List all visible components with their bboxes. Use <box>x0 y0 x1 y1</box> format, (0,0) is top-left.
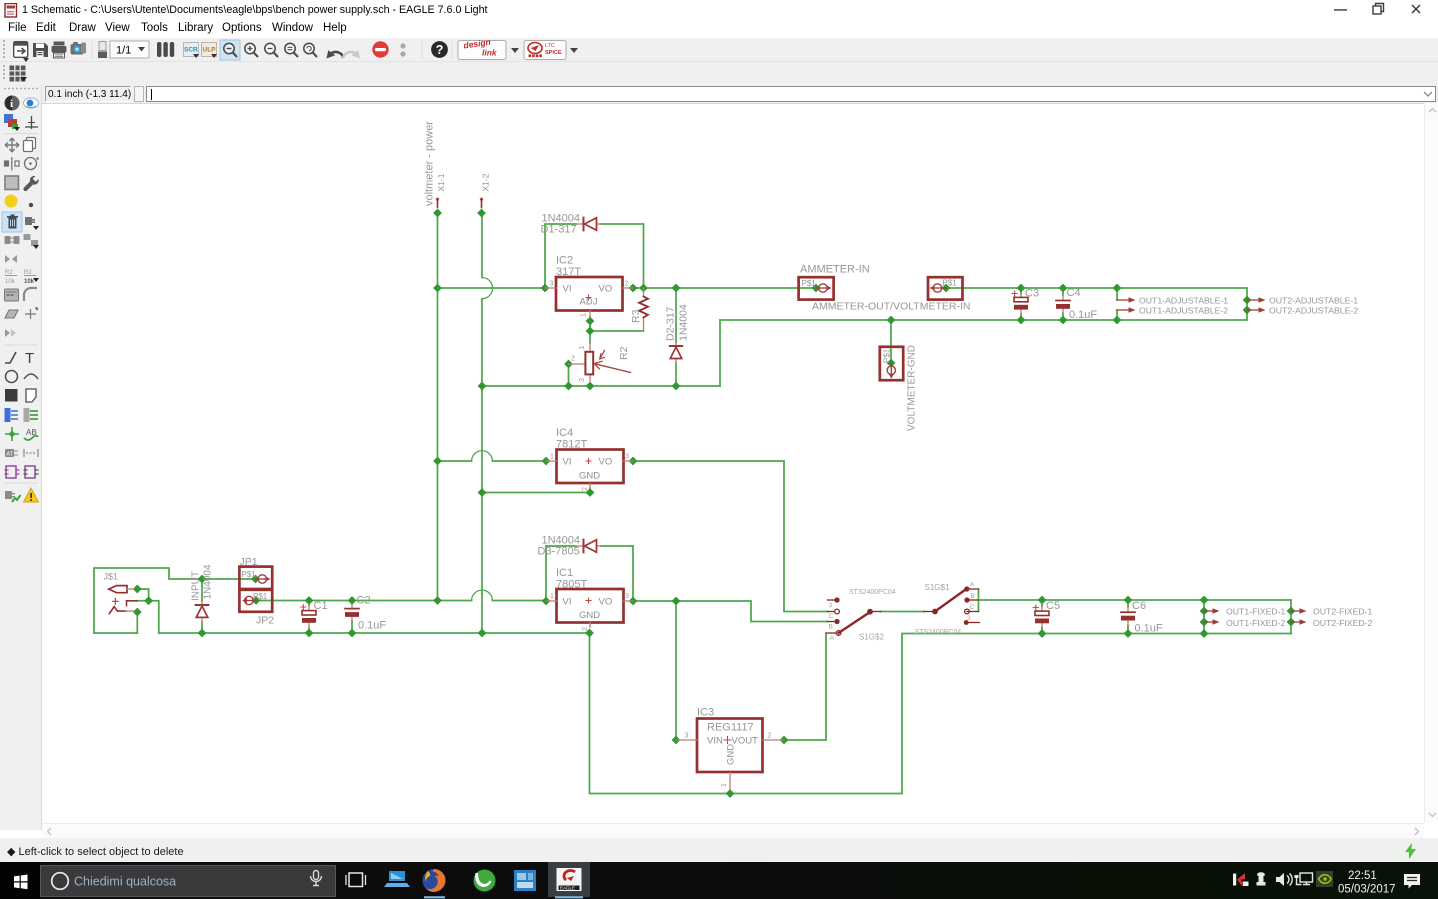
zoom out <box>265 43 278 57</box>
svg-text:REG1117: REG1117 <box>707 722 754 734</box>
junction C4 bottom <box>1059 316 1068 325</box>
label IC4 pin texts <box>563 457 613 482</box>
label IC1 pin numbers <box>550 593 629 631</box>
firefox icon <box>423 869 446 892</box>
label IC3 pin numbers <box>685 733 772 788</box>
design link button <box>458 37 519 60</box>
label switch pin letters S1G$1 <box>967 582 975 623</box>
svg-text:VI: VI <box>563 457 572 468</box>
svg-text:OUT2-ADJUSTABLE-2: OUT2-ADJUSTABLE-2 <box>1269 306 1358 316</box>
svg-text:1: 1 <box>581 313 588 317</box>
svg-text:IC2: IC2 <box>556 255 573 267</box>
pin OUT2-FIXED-1 <box>1291 608 1307 614</box>
wire: OUT2-FIXED vertical <box>1290 600 1292 634</box>
junction C5 top <box>1038 596 1047 605</box>
svg-text:P$1: P$1 <box>943 279 958 288</box>
pin OUT2-ADJUSTABLE-2 <box>1247 307 1266 313</box>
svg-text:VO: VO <box>599 284 613 295</box>
svg-text:GND: GND <box>726 744 737 765</box>
pin X1-1 <box>436 199 440 208</box>
svg-text:OUT1-ADJUSTABLE-2: OUT1-ADJUSTABLE-2 <box>1139 306 1228 316</box>
wire: switch B output rail y599 <box>978 599 1292 601</box>
junction jack plus node <box>144 596 153 605</box>
label IC2 pin numbers <box>550 281 629 318</box>
junction input diode bottom <box>198 629 207 638</box>
svg-text:2: 2 <box>582 627 589 631</box>
junction C6 bottom <box>1124 629 1133 638</box>
svg-text:IC1: IC1 <box>556 567 573 579</box>
tray: white utility <box>1257 872 1266 885</box>
junction R3 top <box>639 284 648 293</box>
junction voltmeter-gnd pin <box>887 359 896 368</box>
svg-text:3: 3 <box>625 593 629 600</box>
junction at X1-1 pin <box>433 209 442 218</box>
label R2 pin numbers <box>571 346 586 383</box>
junction IC4 GND pin <box>586 488 595 497</box>
junction X1-2/rail y385 <box>478 382 487 391</box>
svg-text:C: C <box>970 604 975 611</box>
wire: IC2 VO to AMMETER-IN <box>633 287 816 289</box>
junction D2 bottom rail <box>672 382 681 391</box>
junction IC2 ADJ pin <box>586 317 595 326</box>
label IC1 pin texts <box>563 597 613 622</box>
switch S1G$1 <box>924 586 980 624</box>
wire: C6 connections <box>1127 600 1129 634</box>
svg-text:3: 3 <box>829 602 833 609</box>
svg-text:VOLTMETER-GND: VOLTMETER-GND <box>907 345 918 431</box>
wire: IC4 GND return <box>482 488 590 493</box>
IC4 regulator 7812T <box>546 450 633 489</box>
junction C1 bottom <box>305 629 314 638</box>
svg-text:JP1: JP1 <box>240 556 258 568</box>
IC2 regulator 317T <box>545 277 633 317</box>
pin OUT2-FIXED-2 <box>1291 619 1307 625</box>
junction OUT1-ADJ bottom <box>1113 316 1122 325</box>
tray: nvidia <box>1316 871 1333 887</box>
junction R2 pin3 rail <box>586 382 595 391</box>
junction jack switch pin <box>133 608 142 617</box>
svg-text:2: 2 <box>625 281 629 288</box>
junction C3 bottom <box>1017 316 1026 325</box>
wire: R2 pin2 drop <box>568 364 570 386</box>
wire: D1 cathode drop <box>545 224 576 288</box>
junction OUT2-FIXED-2 <box>1287 618 1296 627</box>
tray: kaspersky <box>1233 873 1249 886</box>
label IC2 pin texts <box>563 284 613 308</box>
svg-text:C3: C3 <box>1025 288 1039 300</box>
ammeter pad AMMETER-IN <box>799 277 834 299</box>
junction IC3 VIN pin <box>672 736 681 745</box>
wire: switch A-C strap <box>978 589 980 612</box>
svg-text:VO: VO <box>599 597 613 608</box>
label IC4 pin numbers <box>550 454 629 492</box>
svg-text:VIN: VIN <box>707 736 723 747</box>
IC3 regulator REG1117 <box>676 719 784 791</box>
svg-text:7805T: 7805T <box>556 579 587 591</box>
SCR <box>184 43 200 59</box>
svg-text:EAGLE: EAGLE <box>560 886 575 891</box>
junction OUT1-FIXED bottom <box>1200 629 1209 638</box>
svg-text:2: 2 <box>582 487 589 491</box>
svg-text:A: A <box>830 635 835 642</box>
pin OUT1-ADJUSTABLE-2 <box>1117 307 1136 313</box>
wire: ammeter-out rail y287 <box>946 287 1247 289</box>
svg-text:10k: 10k <box>24 279 35 285</box>
task view <box>346 873 366 887</box>
open <box>14 42 29 62</box>
wire: C5 connections <box>1041 600 1043 634</box>
svg-text:3: 3 <box>685 733 689 740</box>
junction jack barrel pin <box>133 585 142 594</box>
junction input diode top <box>198 575 207 584</box>
svg-text:1/1: 1/1 <box>116 45 131 57</box>
print <box>52 42 67 59</box>
svg-text:OUT2-FIXED-2: OUT2-FIXED-2 <box>1313 618 1373 628</box>
stop <box>372 41 388 57</box>
header pad JP2 <box>239 590 272 612</box>
svg-text:1N4004: 1N4004 <box>678 304 690 341</box>
switch S1G$2 <box>826 597 881 635</box>
wire: IC1 VO down to IC3 VIN <box>675 601 677 740</box>
wire: bottom ground rail left of gap <box>94 632 137 634</box>
svg-text:AMMETER-OUT/VOLTMETER-IN: AMMETER-OUT/VOLTMETER-IN <box>812 301 970 313</box>
svg-text:S1G$1: S1G$1 <box>925 583 950 592</box>
junction IC1 VO pin <box>629 597 638 606</box>
pin OUT1-FIXED-1 <box>1204 608 1220 614</box>
svg-text:B: B <box>971 593 975 600</box>
junction OUT2-FIXED-1 <box>1287 607 1296 616</box>
wire: D3 cathode drop <box>546 546 576 601</box>
svg-text:D1-317: D1-317 <box>541 224 577 236</box>
svg-text:3: 3 <box>579 378 586 382</box>
zoom redraw <box>304 43 317 57</box>
junction ADJ/R3 tap <box>586 327 595 336</box>
capacitor C5 <box>1033 605 1049 627</box>
ammeter pad AMMETER-OUT <box>928 277 963 299</box>
redo <box>343 50 360 58</box>
action center <box>1404 874 1420 889</box>
svg-text:C: C <box>829 613 834 620</box>
diode D1-317 <box>576 218 602 231</box>
svg-text:3: 3 <box>625 454 629 461</box>
junction at X1-2 pin <box>477 209 486 218</box>
svg-text:D2-317: D2-317 <box>665 306 677 341</box>
svg-text:P$1: P$1 <box>242 570 257 579</box>
svg-text:Chiedimi qualcosa: Chiedimi qualcosa <box>74 875 176 889</box>
svg-text:INPUT: INPUT <box>191 571 202 601</box>
wire: D2 elbow vertical <box>719 320 721 386</box>
wire: 12V input row to IC1 with hop <box>256 600 546 602</box>
wire: IC1 VO to switch B <box>633 601 828 622</box>
svg-text:1: 1 <box>579 346 586 350</box>
junction C4 top <box>1059 284 1068 293</box>
wire: D2 top segment <box>675 288 677 342</box>
svg-text:P$1: P$1 <box>802 279 817 288</box>
svg-text:2: 2 <box>768 733 772 740</box>
junction C1 top <box>305 596 314 605</box>
junction OUT1-FIXED-1 <box>1200 607 1209 616</box>
junction R2 pin2 rail <box>564 382 573 391</box>
wire: ground loop under IC3 <box>590 633 903 794</box>
pin X1-2 <box>480 199 484 208</box>
scrollbars <box>1424 103 1438 823</box>
junction X1-1/IC4 feed <box>433 457 442 466</box>
capacitor C6 <box>1121 607 1135 625</box>
svg-text:IC3: IC3 <box>697 707 714 719</box>
junction C2 top <box>348 596 357 605</box>
svg-text:OUT1-FIXED-2: OUT1-FIXED-2 <box>1226 618 1286 628</box>
svg-text:3: 3 <box>550 281 554 288</box>
svg-text:VI: VI <box>563 284 572 295</box>
IC1 regulator 7805T <box>546 589 633 628</box>
svg-text:i: i <box>10 98 13 110</box>
junction C5 bottom <box>1038 629 1047 638</box>
svg-text:ULP: ULP <box>203 47 217 54</box>
wire: switch common link <box>881 611 925 613</box>
zoom select <box>285 43 298 57</box>
svg-text:IC4: IC4 <box>556 427 573 439</box>
wire: jack switch pin drop <box>136 612 138 633</box>
svg-text:?: ? <box>436 43 444 57</box>
svg-text:R3: R3 <box>630 309 642 323</box>
svg-text:STS2400PC04: STS2400PC04 <box>915 629 962 636</box>
junction IC1 GND rail <box>585 629 594 638</box>
svg-text:SPICE: SPICE <box>545 50 562 56</box>
wire: D2 bottom segment <box>675 363 677 387</box>
save <box>33 43 48 57</box>
junction IC1-out/IC3 tap <box>672 597 681 606</box>
junction C3 top <box>1017 284 1026 293</box>
junction IC1 VI pin <box>542 597 551 606</box>
svg-text:317T: 317T <box>556 266 581 278</box>
svg-text:OUT2-ADJUSTABLE-1: OUT2-ADJUSTABLE-1 <box>1269 296 1358 306</box>
svg-text:0.1uF: 0.1uF <box>358 620 386 632</box>
wire: IC3 VOUT up to switch A <box>784 634 826 741</box>
wire: fixed bottom rail y632.5 <box>902 633 1291 635</box>
svg-text:GND: GND <box>579 610 600 621</box>
svg-text:C1: C1 <box>314 600 328 612</box>
svg-text:P$1: P$1 <box>883 348 892 363</box>
junction R2 pin2 <box>564 360 573 369</box>
laptop icon <box>384 871 410 887</box>
junction OUT1-ADJ top <box>1113 284 1122 293</box>
1/1 dropdown <box>110 41 149 58</box>
svg-text:0.1uF: 0.1uF <box>1135 623 1163 635</box>
wire: X1-1 vertical feed <box>437 213 439 601</box>
junction IC4 VI pin <box>542 457 551 466</box>
svg-text:C2: C2 <box>357 595 371 607</box>
svg-text:J$1: J$1 <box>104 572 119 582</box>
svg-text:AT: AT <box>7 452 14 458</box>
svg-text:link: link <box>482 48 498 58</box>
wire: IC4 VO to switch C <box>633 461 828 612</box>
svg-text:AMMETER-IN: AMMETER-IN <box>800 264 870 276</box>
svg-text:LTC: LTC <box>545 43 555 49</box>
wire: jack plus pin down to rail <box>138 601 159 633</box>
wire: IC2 ADJ chain <box>589 317 591 343</box>
wire: X1-1 to IC4 VI with hop <box>438 460 547 462</box>
pin OUT1-FIXED-2 <box>1204 619 1220 625</box>
wire: adjustable right edge vertical <box>1246 288 1248 320</box>
pad VOLTMETER-GND <box>880 347 903 380</box>
svg-text:ADJ: ADJ <box>580 297 598 308</box>
tray: network <box>1295 873 1313 885</box>
wire: voltmeter-in rail y319 <box>720 319 1247 321</box>
svg-text:C5: C5 <box>1046 600 1060 612</box>
junction AMMETER-OUT pin <box>942 284 951 293</box>
use III <box>157 42 174 57</box>
junction X1-1 end at IC1 feed <box>433 596 442 605</box>
header pad JP1 <box>239 567 272 589</box>
wire: IC3 GND tail <box>729 790 731 794</box>
svg-text:VO: VO <box>599 457 613 468</box>
junction C2 bottom <box>348 629 357 638</box>
zoom fit (highlighted) <box>220 40 240 60</box>
label IC3 pin texts <box>707 736 758 766</box>
svg-text:7812T: 7812T <box>556 439 587 451</box>
wire: C4 connections <box>1062 288 1064 320</box>
start button <box>0 862 40 899</box>
junction IC2 VO pin <box>629 284 638 293</box>
cortana search box <box>41 866 336 897</box>
wire: OUT1-FIXED vertical <box>1203 600 1205 634</box>
open app underlines <box>424 896 445 898</box>
pin OUT2-ADJUSTABLE-1 <box>1247 297 1266 303</box>
zoom in <box>245 43 258 57</box>
svg-text:C6: C6 <box>1132 600 1146 612</box>
svg-text:STS2400PC04: STS2400PC04 <box>849 589 896 596</box>
junction IC3 GND pin <box>726 789 735 798</box>
svg-text:C4: C4 <box>1067 287 1081 299</box>
svg-text:voltmeter - power: voltmeter - power <box>424 121 436 206</box>
svg-text:2: 2 <box>571 356 575 363</box>
junction OUT1-FIXED top <box>1200 596 1209 605</box>
wire: ADJ to R3 bottom <box>590 330 644 332</box>
junction AMMETER-IN pin <box>812 284 821 293</box>
wire: X1-2 hop over ammeter wire <box>482 278 493 299</box>
svg-text:T: T <box>25 350 34 367</box>
wire: X1-2 vertical (lower) <box>481 299 483 633</box>
svg-text:2: 2 <box>967 615 971 622</box>
wire: X1-1 to IC2 VI <box>438 287 546 289</box>
wire: bottom ground rail <box>159 632 590 634</box>
LTC spice button <box>524 41 578 60</box>
junction D2 top <box>672 284 681 293</box>
wire: jack outer loop <box>94 568 256 633</box>
junction X1-2 ground end <box>478 629 487 638</box>
junction C6 top <box>1124 596 1133 605</box>
wire: jack barrel pin link <box>137 589 148 601</box>
svg-text:OUT1-ADJUSTABLE-1: OUT1-ADJUSTABLE-1 <box>1139 296 1228 306</box>
svg-text:OUT1-FIXED-1: OUT1-FIXED-1 <box>1226 607 1286 617</box>
junction IC2 VI pin <box>541 284 550 293</box>
svg-text:0.1uF: 0.1uF <box>1069 309 1097 321</box>
svg-text:D3-7805: D3-7805 <box>538 546 580 558</box>
potentiometer R2 <box>569 343 631 383</box>
undo <box>327 50 344 58</box>
tray: speaker <box>1276 873 1292 886</box>
junction OUT2-ADJ-1 <box>1243 296 1252 305</box>
svg-text:VI: VI <box>563 597 572 608</box>
wire: D1 anode drop <box>601 224 644 288</box>
svg-text:S1G$2: S1G$2 <box>859 633 884 642</box>
svg-text:22:51: 22:51 <box>1348 870 1377 882</box>
svg-text:05/03/2017: 05/03/2017 <box>1338 884 1396 896</box>
junction JP1 pin <box>251 575 260 584</box>
svg-text:A: A <box>970 582 975 589</box>
svg-text:1: 1 <box>550 454 554 461</box>
label switch pin letters S1G$2 <box>829 602 835 642</box>
junction IC4 VO pin <box>629 457 638 466</box>
pin OUT1-ADJUSTABLE-1 <box>1117 297 1136 303</box>
junction JP2 pin <box>252 596 261 605</box>
svg-text:1: 1 <box>721 783 728 787</box>
capacitor C1 <box>301 605 316 628</box>
svg-text:X1-1: X1-1 <box>436 173 446 191</box>
ULP <box>202 43 218 59</box>
wire: voltmeter-gnd drop <box>890 320 892 363</box>
svg-text:1N4004: 1N4004 <box>203 564 214 599</box>
sheet thumb <box>98 42 107 59</box>
wire: OUT1-ADJ pin stubs <box>1116 288 1118 320</box>
help <box>431 41 448 58</box>
wire: hop over X1-2 at IC1 feed <box>472 590 493 600</box>
junction OUT1-FIXED-2 <box>1200 618 1209 627</box>
junction X1-1/ammeter wire <box>433 284 442 293</box>
svg-text:1: 1 <box>550 593 554 600</box>
svg-text:GND: GND <box>579 471 600 482</box>
junction X1-2/IC4 gnd <box>478 488 487 497</box>
svg-text:R2: R2 <box>618 346 630 360</box>
wire: D3 anode drop <box>601 546 633 601</box>
svg-text:OUT2-FIXED-1: OUT2-FIXED-1 <box>1313 607 1373 617</box>
capacitor C4 <box>1056 295 1070 313</box>
junction voltmeter-gnd rail <box>887 316 896 325</box>
diode D3-7805 <box>576 540 602 553</box>
options dots <box>400 43 405 56</box>
wire: C1 connections <box>308 601 310 634</box>
svg-text:P$1: P$1 <box>253 592 268 601</box>
diode D2-317 <box>670 342 682 363</box>
wire: input diode connections <box>201 579 203 633</box>
resistor R3 <box>639 288 648 331</box>
photos icon <box>514 870 536 891</box>
svg-text:10k: 10k <box>5 279 16 285</box>
svg-text:JP2: JP2 <box>256 615 274 627</box>
wire: X1-2 vertical (upper) <box>481 213 483 278</box>
wire: adj bottom rail y385 <box>482 385 720 387</box>
eagle tile <box>548 862 590 897</box>
wire: C2 connections <box>351 601 353 634</box>
diode INPUT 1N4004 <box>196 601 209 622</box>
svg-text:SCR: SCR <box>184 47 198 54</box>
capacitor C3 <box>1012 291 1028 314</box>
junction IC3 VOUT pin <box>780 736 789 745</box>
svg-text:B: B <box>829 624 833 631</box>
wire: hop over X1-2 at IC4 feed <box>472 451 493 461</box>
utorrent icon <box>474 870 496 892</box>
wire: C3 connections <box>1020 288 1022 320</box>
junction OUT2-ADJ-2 <box>1243 306 1252 315</box>
connector J$1 barrel jack <box>109 586 137 614</box>
cam <box>71 42 87 55</box>
capacitor C2 <box>345 604 359 621</box>
svg-text:X1-2: X1-2 <box>481 173 491 191</box>
